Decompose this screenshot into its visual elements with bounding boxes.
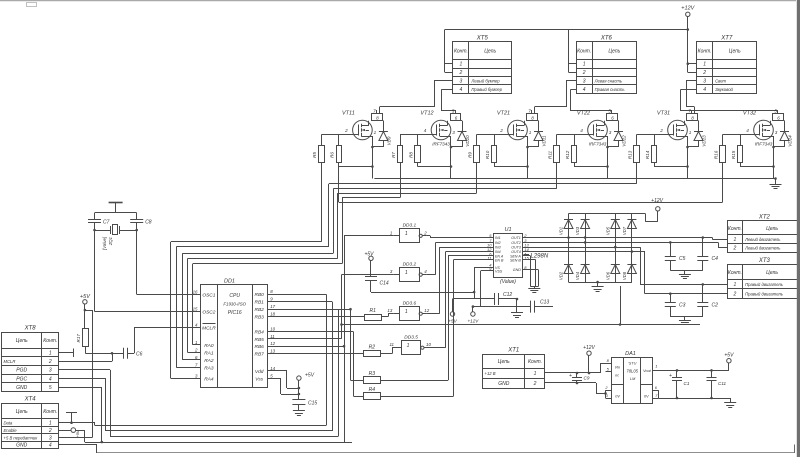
svg-text:PGC: PGC bbox=[16, 376, 27, 382]
svg-text:MCLR: MCLR bbox=[4, 359, 16, 364]
wire source/ground rail bbox=[374, 178, 775, 180]
svg-text:VT31: VT31 bbox=[657, 111, 670, 117]
wire gate rail VT31 bbox=[637, 135, 674, 146]
svg-text:DD3.1: DD3.1 bbox=[403, 223, 417, 229]
svg-text:12: 12 bbox=[270, 341, 275, 346]
svg-text:CPU: CPU bbox=[229, 293, 240, 299]
connector XT6 bbox=[577, 35, 637, 93]
svg-text:SEN B: SEN B bbox=[510, 259, 521, 263]
svg-text:L298N: L298N bbox=[531, 254, 549, 260]
svg-text:RB7: RB7 bbox=[255, 352, 265, 358]
svg-text:5: 5 bbox=[270, 374, 273, 379]
svg-text:Конт.: Конт. bbox=[43, 409, 57, 415]
svg-text:VT12: VT12 bbox=[420, 111, 433, 117]
svg-text:5: 5 bbox=[607, 367, 610, 372]
pin labels VT11 gate 2 source 1 bbox=[344, 128, 377, 135]
connector XT7 bbox=[697, 35, 757, 93]
svg-text:OUT2: OUT2 bbox=[511, 241, 521, 245]
svg-text:’STU: ’STU bbox=[628, 362, 637, 366]
svg-text:XT3: XT3 bbox=[758, 258, 771, 264]
svg-text:R2: R2 bbox=[369, 344, 376, 350]
wire gate rail VT32 bbox=[723, 135, 760, 146]
wire source drop VT22 bbox=[574, 136, 609, 179]
wire source drop VT31 bbox=[654, 136, 689, 179]
svg-text:C3: C3 bbox=[679, 303, 686, 309]
svg-text:3: 3 bbox=[703, 79, 706, 85]
wire OSC1 bbox=[137, 294, 201, 296]
inverter DD3.5 bbox=[389, 335, 431, 355]
svg-text:3: 3 bbox=[390, 269, 393, 274]
scan edge right bbox=[797, 0, 800, 457]
svg-text:1: 1 bbox=[405, 270, 408, 276]
svg-text:3: 3 bbox=[49, 435, 52, 441]
svg-text:R4: R4 bbox=[369, 387, 376, 393]
svg-text:IRF7343: IRF7343 bbox=[755, 142, 773, 147]
node +5V near DD1 bbox=[297, 373, 315, 400]
svg-text:+12V: +12V bbox=[467, 319, 479, 324]
diode VD14 bbox=[774, 121, 793, 148]
connector XT8 bbox=[2, 326, 59, 392]
wire gate rail VT12 bbox=[400, 135, 437, 146]
inverter DD3.1 bbox=[390, 223, 427, 243]
svg-text:2: 2 bbox=[194, 348, 198, 353]
svg-text:R14: R14 bbox=[645, 150, 650, 159]
svg-text:R6: R6 bbox=[330, 152, 335, 158]
diode VD7 bbox=[622, 214, 637, 283]
wire XT4 pin3 +5V transmitter bbox=[59, 309, 93, 438]
wire RB5 stub bbox=[267, 338, 341, 340]
svg-text:3: 3 bbox=[452, 130, 455, 135]
wire OUT3 to XT3 pin1 bbox=[523, 246, 728, 286]
svg-text:+5V: +5V bbox=[724, 353, 734, 359]
resistor R11 bbox=[547, 146, 559, 163]
wire DD3.5 out to U1 IN4 bbox=[429, 252, 494, 348]
resistor R4 bbox=[267, 260, 493, 400]
capacitor C5 bbox=[665, 242, 686, 270]
svg-text:RB2: RB2 bbox=[255, 307, 265, 313]
svg-text:VD10: VD10 bbox=[465, 135, 470, 147]
svg-text:XT2: XT2 bbox=[758, 215, 771, 221]
svg-text:VD4: VD4 bbox=[575, 271, 580, 280]
svg-text:R10: R10 bbox=[485, 150, 490, 159]
resistor R16 bbox=[713, 146, 725, 163]
wire DD3.2 input feed bbox=[340, 275, 700, 339]
wire gate rail VT11 bbox=[321, 135, 358, 146]
svg-text:+: + bbox=[669, 373, 672, 379]
transistor VT12 bbox=[420, 111, 451, 147]
pin labels VT12 gate 4 source 3 bbox=[424, 128, 456, 135]
svg-text:Левый двигатель: Левый двигатель bbox=[744, 246, 780, 251]
transistor VT32 bbox=[743, 111, 774, 147]
svg-text:Vdd: Vdd bbox=[255, 369, 264, 375]
capacitor C11 bbox=[707, 369, 727, 398]
svg-text:4: 4 bbox=[195, 323, 198, 328]
svg-text:RA2: RA2 bbox=[204, 358, 214, 364]
svg-text:4: 4 bbox=[49, 376, 52, 382]
svg-text:VD1: VD1 bbox=[559, 227, 564, 235]
svg-text:VD6: VD6 bbox=[605, 271, 610, 280]
svg-text:F1930-I/SO: F1930-I/SO bbox=[223, 302, 246, 307]
svg-text:Vin: Vin bbox=[615, 366, 620, 370]
svg-text:Левый двигатель: Левый двигатель bbox=[744, 237, 780, 242]
svg-text:C11: C11 bbox=[718, 381, 727, 386]
diode VD11 bbox=[528, 121, 547, 148]
capacitor C4 bbox=[697, 238, 718, 271]
svg-text:VD9: VD9 bbox=[386, 136, 391, 145]
svg-text:Vout: Vout bbox=[643, 369, 652, 373]
svg-text:2: 2 bbox=[733, 246, 737, 252]
DD1 left pin names bbox=[193, 289, 217, 382]
capacitor C3 bbox=[665, 294, 686, 317]
svg-text:EN B: EN B bbox=[495, 259, 504, 263]
svg-text:RA4: RA4 bbox=[204, 377, 214, 383]
svg-text:R17: R17 bbox=[76, 334, 81, 343]
wire RB6 stub bbox=[267, 345, 345, 348]
svg-text:IRF7343: IRF7343 bbox=[589, 142, 607, 147]
svg-text:Enable: Enable bbox=[4, 428, 18, 433]
svg-text:7: 7 bbox=[655, 394, 658, 398]
wire long mid line bbox=[0, 0, 1, 1]
svg-text:VSS: VSS bbox=[495, 269, 503, 273]
DD1 right pin names bbox=[255, 289, 276, 382]
svg-text:RB1: RB1 bbox=[255, 300, 265, 306]
svg-text:1: 1 bbox=[689, 130, 692, 135]
resistor R12 bbox=[565, 146, 577, 163]
svg-text:VD8: VD8 bbox=[622, 271, 627, 280]
svg-text:4: 4 bbox=[703, 87, 706, 93]
svg-text:3: 3 bbox=[195, 374, 198, 379]
svg-text:13: 13 bbox=[270, 349, 275, 354]
ground bridge bbox=[592, 281, 604, 292]
svg-text:4: 4 bbox=[746, 128, 749, 133]
svg-text:+12V: +12V bbox=[583, 345, 595, 351]
svg-text:13: 13 bbox=[387, 308, 392, 313]
svg-text:DD3.6: DD3.6 bbox=[403, 301, 417, 307]
svg-text:R1: R1 bbox=[370, 308, 377, 314]
svg-text:2: 2 bbox=[582, 70, 586, 76]
svg-text:7: 7 bbox=[373, 108, 376, 113]
svg-text:C13: C13 bbox=[540, 300, 549, 306]
svg-text:R9: R9 bbox=[467, 152, 472, 158]
wire XT8 pin2 MCLR bbox=[59, 352, 114, 362]
wire Vdd to +5V bbox=[267, 371, 300, 390]
wire Data bus riser to RB0 bbox=[267, 294, 326, 425]
wire XT4 pin2 Enable with test point bbox=[59, 428, 344, 444]
svg-text:1: 1 bbox=[583, 62, 586, 68]
svg-text:DA1: DA1 bbox=[625, 351, 636, 357]
svg-text:IN3: IN3 bbox=[495, 246, 501, 250]
wire OSC2 bbox=[95, 311, 201, 313]
svg-text:Цепь: Цепь bbox=[484, 49, 496, 55]
svg-text:8: 8 bbox=[376, 116, 379, 121]
diode VD13 bbox=[688, 121, 707, 148]
svg-text:+12V: +12V bbox=[651, 198, 663, 204]
svg-text:VD3: VD3 bbox=[575, 226, 580, 235]
wire XT8 pin1 stub bbox=[59, 349, 74, 358]
svg-text:Цепь: Цепь bbox=[16, 338, 28, 344]
svg-text:C2: C2 bbox=[712, 303, 719, 309]
svg-text:1: 1 bbox=[390, 230, 393, 235]
svg-text:3: 3 bbox=[460, 79, 463, 85]
wire source drop VT12 bbox=[418, 136, 453, 179]
svg-text:GND: GND bbox=[16, 385, 28, 391]
pin box VT11 drain pins 7/8 bbox=[372, 108, 383, 120]
pin labels VT31 gate 2 source 1 bbox=[659, 128, 692, 135]
svg-text:Конт.: Конт. bbox=[728, 226, 742, 232]
wire XT8 pin5 GND bbox=[59, 387, 102, 442]
wire XT7 pins 1-2 to +12V bbox=[687, 30, 697, 73]
svg-text:4: 4 bbox=[424, 128, 427, 133]
svg-text:XT4: XT4 bbox=[24, 397, 37, 403]
svg-text:MCLR: MCLR bbox=[202, 326, 216, 332]
diode VD1 bbox=[559, 214, 574, 283]
svg-text:7: 7 bbox=[195, 362, 198, 367]
svg-text:+5V: +5V bbox=[75, 430, 80, 438]
svg-text:2: 2 bbox=[702, 70, 706, 76]
svg-text:1: 1 bbox=[374, 130, 377, 135]
svg-text:R11: R11 bbox=[547, 150, 552, 159]
node +12V bridge terminal bbox=[645, 198, 663, 222]
wire GND bus to C15 ground bbox=[344, 442, 352, 444]
diode VD4 bbox=[575, 265, 590, 281]
svg-text:Свет: Свет bbox=[715, 79, 726, 84]
svg-text:17: 17 bbox=[270, 304, 275, 309]
svg-text:3: 3 bbox=[775, 130, 778, 135]
svg-text:1: 1 bbox=[703, 62, 706, 68]
transistor VT31 bbox=[657, 111, 688, 140]
transistor VT22 bbox=[577, 111, 608, 147]
svg-text:RB3: RB3 bbox=[255, 315, 265, 321]
svg-text:VT22: VT22 bbox=[577, 111, 590, 117]
svg-text:VD13: VD13 bbox=[702, 135, 707, 147]
svg-text:11: 11 bbox=[487, 255, 491, 260]
wire gate rail VT22 bbox=[557, 135, 594, 146]
transistor VT11 bbox=[342, 111, 372, 140]
svg-text:RB0: RB0 bbox=[255, 292, 265, 298]
svg-text:C5: C5 bbox=[679, 256, 686, 262]
svg-text:+5 В передатчик: +5 В передатчик bbox=[4, 435, 39, 440]
svg-text:78L05: 78L05 bbox=[626, 369, 638, 374]
svg-text:Конт.: Конт. bbox=[454, 49, 468, 55]
svg-text:VD5: VD5 bbox=[605, 226, 610, 235]
svg-text:C7: C7 bbox=[103, 220, 110, 226]
svg-text:VT11: VT11 bbox=[342, 111, 355, 117]
svg-text:2: 2 bbox=[733, 291, 737, 297]
svg-text:RB4: RB4 bbox=[255, 330, 265, 336]
wire PGD bus riser to RB2 bbox=[110, 309, 339, 436]
svg-text:2: 2 bbox=[48, 359, 52, 365]
svg-text:Левый бумпер: Левый бумпер bbox=[470, 79, 500, 84]
capacitor C8 bbox=[130, 213, 152, 294]
node +12V under U1 bbox=[467, 305, 479, 323]
resistor R17 bbox=[76, 329, 88, 347]
svg-text:+5V: +5V bbox=[448, 319, 457, 324]
ground C15 bbox=[293, 411, 305, 416]
resistor R3 bbox=[349, 256, 493, 384]
capacitor C2 bbox=[697, 284, 718, 317]
wire XT8 pin4 PGC bbox=[59, 379, 106, 432]
svg-text:[Value]: [Value] bbox=[102, 236, 107, 251]
svg-text:C15: C15 bbox=[308, 401, 317, 407]
svg-text:RA1: RA1 bbox=[204, 351, 214, 357]
svg-text:DD3.5: DD3.5 bbox=[404, 335, 418, 341]
capacitor C13 bbox=[473, 300, 553, 313]
connector XT3 bbox=[728, 258, 800, 298]
IC DA1 78L05 bbox=[604, 351, 658, 403]
svg-text:1: 1 bbox=[655, 363, 657, 368]
resistor R13 bbox=[627, 146, 639, 163]
svg-text:PIC16: PIC16 bbox=[228, 310, 242, 316]
transistor VT21 bbox=[497, 111, 528, 140]
svg-text:5: 5 bbox=[608, 108, 611, 113]
svg-text:6: 6 bbox=[455, 116, 458, 121]
wire XT5 pin3 to VT11, pin4 to VT12 bbox=[380, 81, 456, 114]
inverter DD3.2 bbox=[390, 261, 427, 281]
wire source drop VT32 bbox=[740, 136, 775, 179]
svg-text:VT32: VT32 bbox=[743, 111, 756, 117]
wire bridge +12V bus bbox=[569, 213, 646, 215]
ground DA1 bbox=[724, 398, 736, 408]
capacitor C14 bbox=[365, 277, 474, 293]
svg-text:1: 1 bbox=[734, 282, 737, 288]
capacitor C7 bbox=[88, 213, 110, 312]
svg-text:4: 4 bbox=[460, 87, 463, 93]
svg-text:1: 1 bbox=[405, 309, 408, 315]
svg-text:RA0: RA0 bbox=[204, 343, 214, 349]
svg-text:VT21: VT21 bbox=[497, 111, 510, 117]
connector XT5 bbox=[453, 35, 512, 93]
svg-text:XT6: XT6 bbox=[600, 35, 613, 41]
svg-text:VD11: VD11 bbox=[542, 135, 547, 147]
svg-text:Конт.: Конт. bbox=[528, 359, 542, 365]
svg-text:Data: Data bbox=[4, 421, 14, 426]
svg-text:GND: GND bbox=[513, 268, 521, 272]
wire XT6 pin3 to VT21, pin4 to VT22 bbox=[535, 81, 612, 114]
svg-text:R16: R16 bbox=[713, 150, 718, 159]
diode VD8 bbox=[622, 265, 637, 281]
wire DA1 ground rail bbox=[658, 397, 730, 400]
svg-text:Конт.: Конт. bbox=[698, 49, 712, 55]
svg-text:1: 1 bbox=[407, 343, 410, 349]
node +5V under U1 bbox=[448, 299, 457, 324]
diode VD3 bbox=[575, 214, 590, 283]
svg-text:IN4: IN4 bbox=[495, 250, 501, 254]
svg-text:1: 1 bbox=[529, 130, 532, 135]
svg-text:RA3: RA3 bbox=[204, 365, 214, 371]
svg-text:3: 3 bbox=[609, 130, 612, 135]
svg-text:2: 2 bbox=[459, 70, 463, 76]
svg-text:VD12: VD12 bbox=[622, 135, 627, 147]
svg-text:XT8: XT8 bbox=[24, 326, 37, 332]
pin box VT12 drain pins 5/6 bbox=[451, 108, 461, 120]
wire RB2 to R3 junction bbox=[338, 309, 351, 311]
svg-text:PGD: PGD bbox=[16, 368, 27, 374]
svg-text:Цепь: Цепь bbox=[766, 270, 778, 276]
svg-text:C6: C6 bbox=[136, 352, 143, 358]
node +5V near XT8 bbox=[80, 294, 91, 328]
svg-text:R8: R8 bbox=[408, 152, 413, 158]
wire source drop VT11 bbox=[339, 136, 374, 179]
svg-text:Правый двигатель: Правый двигатель bbox=[745, 282, 783, 287]
svg-text:8: 8 bbox=[531, 116, 534, 121]
svg-text:3: 3 bbox=[49, 368, 52, 374]
svg-text:6: 6 bbox=[655, 386, 658, 390]
svg-text:Правый бумпер: Правый бумпер bbox=[471, 87, 502, 92]
ground under C12 C13 bbox=[511, 298, 523, 318]
node +12V near XT1 bbox=[583, 345, 595, 374]
svg-text:1: 1 bbox=[49, 351, 52, 357]
svg-text:OUT3: OUT3 bbox=[511, 246, 521, 250]
wire RA2 gate bus bbox=[188, 163, 477, 353]
connector XT1 bbox=[483, 348, 545, 389]
svg-text:R5: R5 bbox=[312, 152, 317, 158]
svg-text:Цепь: Цепь bbox=[608, 49, 620, 55]
svg-text:6: 6 bbox=[777, 116, 780, 121]
wire RA4 gate bus bbox=[171, 163, 723, 379]
capacitor C6 bbox=[124, 328, 201, 359]
svg-text:18: 18 bbox=[270, 312, 275, 317]
svg-text:Конт.: Конт. bbox=[577, 49, 591, 55]
wire Enable bus riser to DD3.1 input bbox=[344, 236, 394, 443]
svg-text:0V: 0V bbox=[615, 395, 620, 399]
svg-text:XT1: XT1 bbox=[507, 348, 519, 354]
svg-text:R3: R3 bbox=[369, 371, 376, 377]
svg-text:2: 2 bbox=[499, 128, 503, 133]
wire DA1 Vout to +5V bbox=[653, 353, 734, 371]
svg-text:(Value): (Value) bbox=[500, 279, 516, 285]
pin box VT31 drain pins 7/8 bbox=[687, 108, 698, 120]
wire Vss bbox=[267, 379, 300, 396]
wire XT1 pin1 to DA1 Vin bbox=[545, 363, 611, 373]
svg-text:2: 2 bbox=[659, 128, 663, 133]
node +12V top terminal bbox=[681, 6, 695, 73]
wire XT6 pins 1-2 to +12V bbox=[569, 30, 577, 73]
pin labels VT32 gate 4 source 3 bbox=[746, 128, 778, 135]
capacitor C12 bbox=[453, 292, 518, 305]
wire MCLR net bbox=[85, 346, 123, 354]
svg-text:ZQ1: ZQ1 bbox=[108, 237, 113, 246]
svg-text:C8: C8 bbox=[145, 220, 152, 226]
scan edge top bbox=[0, 0, 796, 2]
svg-text:8: 8 bbox=[691, 116, 694, 121]
wire U1 VS to +12V and C12 bbox=[473, 267, 493, 299]
svg-text:R13: R13 bbox=[627, 150, 632, 159]
svg-text:VD2: VD2 bbox=[559, 271, 564, 280]
resistor R14 bbox=[645, 146, 657, 163]
wire crystal top rail bbox=[95, 212, 137, 214]
svg-text:9: 9 bbox=[270, 297, 273, 302]
resistor R15 bbox=[731, 146, 743, 163]
pin labels VT21 gate 2 source 1 bbox=[499, 128, 532, 135]
svg-text:GND: GND bbox=[16, 443, 28, 449]
pin box VT22 drain pins 5/6 bbox=[607, 108, 618, 120]
svg-text:Звуковой: Звуковой bbox=[715, 87, 733, 92]
svg-text:+: + bbox=[569, 373, 572, 379]
wire RA3 gate bus bbox=[193, 163, 401, 345]
svg-text:DD3.2: DD3.2 bbox=[403, 261, 417, 267]
crystal ZQ1 bbox=[93, 225, 138, 251]
svg-text:+12 В: +12 В bbox=[485, 371, 496, 376]
capacitor C15 bbox=[292, 400, 317, 412]
svg-text:OUT1: OUT1 bbox=[511, 236, 521, 240]
wire XT5 pins 1-2 to +12V bbox=[445, 30, 454, 73]
resistor R7 bbox=[391, 146, 403, 163]
svg-text:GND: GND bbox=[498, 381, 510, 387]
svg-text:VD7: VD7 bbox=[622, 226, 627, 235]
svg-text:OUT4: OUT4 bbox=[511, 250, 521, 254]
svg-text:R7: R7 bbox=[391, 152, 396, 158]
svg-text:Цепь: Цепь bbox=[16, 409, 28, 415]
